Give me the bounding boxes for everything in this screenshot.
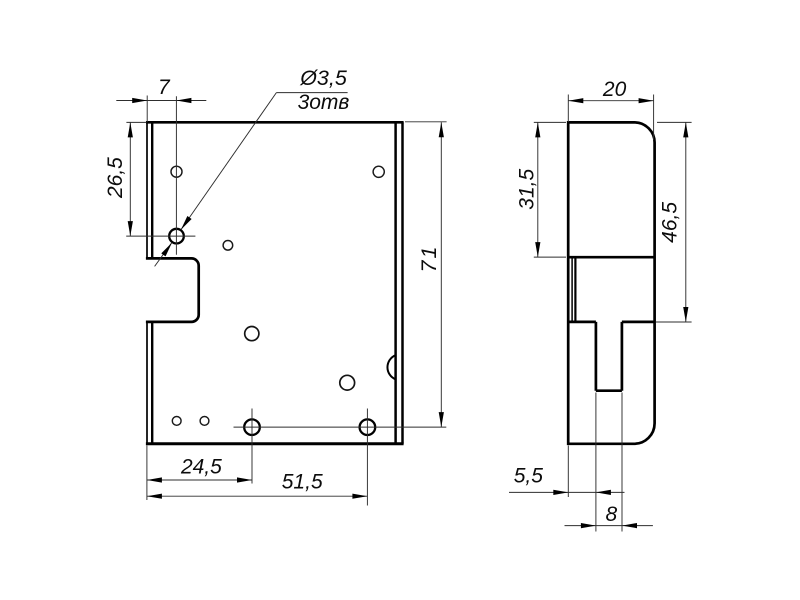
dimension 71 extension line top [405, 121, 447, 123]
hole top-left [171, 166, 182, 177]
front view: left outer edge (upper part) [146, 122, 148, 258]
dimension 8 extension left (slot left wall extended) [595, 393, 597, 532]
dimension 31,5 arrow bottom [535, 242, 540, 257]
front view: left bend line (lower part) [151, 322, 153, 444]
dimension 20 arrow left [568, 98, 583, 103]
dimension 24,5 text [180, 455, 222, 478]
hole middle center [245, 327, 259, 341]
dimension 46,5 extension top [657, 121, 692, 123]
svg-text:26,5: 26,5 [104, 157, 127, 199]
dimensioned hole I 3.5 bottom left [244, 419, 260, 435]
hole top-right [373, 166, 384, 177]
side view: slot left wall [595, 322, 598, 391]
dimension 46,5 text [658, 202, 681, 243]
dimension 8 extension right (slot right wall extended) [621, 393, 623, 532]
side view: middle shelf right segment [622, 321, 654, 324]
dimension 24,5 arrow right [237, 477, 252, 482]
front view: left outer edge (lower part) [146, 322, 148, 444]
side view: step line [567, 256, 654, 259]
dimension 8 arrow right [622, 523, 637, 528]
dimension 24,5 and 51,5 common extension line [146, 446, 148, 501]
center line vertical of hole I [251, 409, 253, 484]
side view: outline [568, 122, 654, 443]
hole small middle [223, 241, 233, 251]
dimension 5,5 line [509, 491, 625, 493]
dimension 31,5 arrow top [535, 122, 540, 137]
hole middle lower [340, 375, 355, 390]
dimension 5,5 arrow left [553, 490, 568, 495]
dimension 26,5 arrow top [128, 122, 133, 137]
dimension 51,5 line [147, 495, 368, 497]
dimension 7 arrow right [176, 98, 191, 103]
front view: right inner edge line [394, 122, 397, 443]
svg-text:51,5: 51,5 [282, 470, 323, 493]
dimension 46,5 arrow bottom [683, 307, 688, 322]
front view: notch cutout with rounded corners [146, 258, 199, 322]
dimension 51,5 text [282, 470, 323, 493]
dimension 24,5 arrow left [147, 477, 162, 482]
dimension 8 text [605, 503, 617, 526]
side view: inner thin line [571, 257, 573, 322]
side view: slot right wall [621, 322, 624, 391]
dimension 7 line [116, 100, 206, 102]
dimension 26,5 line [129, 122, 131, 236]
dimension 71 arrow bottom [439, 412, 444, 427]
dimension 20 text [602, 78, 627, 101]
dimension 26,5 extension line top [126, 121, 146, 123]
dimension 20 extension right [653, 95, 655, 141]
leader arrow lower [161, 241, 174, 256]
leader line lower tail [155, 243, 172, 267]
label diameter 3,5 [299, 66, 348, 90]
dimension 26,5 text [104, 157, 127, 199]
side view: middle shelf left segment [567, 321, 596, 324]
dimension 20 line [568, 100, 653, 102]
dimension 8 arrow left [581, 523, 596, 528]
dimension 71 arrow top [439, 122, 444, 137]
svg-text:20: 20 [602, 78, 627, 101]
svg-text:24,5: 24,5 [180, 455, 222, 478]
dimension 20 arrow right [639, 98, 654, 103]
hole bottom small 1 [172, 417, 181, 426]
svg-text:71: 71 [417, 245, 441, 273]
dimension 5,5 extension left [567, 446, 569, 498]
center line vertical of hole J [366, 409, 368, 506]
svg-text:Ø3,5: Ø3,5 [299, 66, 348, 90]
dimension 31,5 extension top [534, 121, 566, 123]
svg-text:3отв: 3отв [298, 91, 350, 114]
dimensioned hole D 3.5 upper [169, 229, 184, 244]
dimension 26,5 arrow bottom [128, 221, 133, 236]
label 3otv [298, 91, 350, 114]
svg-text:5,5: 5,5 [514, 465, 544, 488]
dimension 7 arrow left [132, 98, 147, 103]
front view: bottom edge [146, 442, 404, 445]
front view: right outer edge line [401, 122, 404, 443]
side view: slot bottom [596, 389, 622, 392]
dimensioned hole J 3.5 bottom right [360, 419, 376, 435]
dimension 5,5 arrow right [596, 490, 611, 495]
leader shelf line [276, 92, 347, 94]
center line vertical of hole D [175, 96, 177, 255]
dimension 31,5 text [515, 169, 538, 210]
front view: left bend line (upper part) [151, 122, 153, 258]
dimension 46,5 arrow top [683, 122, 688, 137]
dimension 31,5 line [537, 122, 539, 257]
dimension 51,5 arrow right [352, 494, 367, 499]
svg-text:46,5: 46,5 [658, 202, 681, 243]
center line horizontal of hole D [126, 235, 195, 237]
svg-text:8: 8 [605, 503, 617, 526]
dimension 20 extension left [567, 95, 569, 123]
center line horizontal through holes I and J [234, 426, 447, 428]
dimension 46,5 extension bottom [656, 321, 692, 323]
hole bottom small 2 [200, 417, 209, 426]
side view: inner thick line [574, 257, 576, 322]
svg-text:31,5: 31,5 [515, 169, 538, 210]
svg-text:7: 7 [158, 76, 171, 99]
leader arrow upper [179, 216, 192, 231]
front view: top edge [146, 121, 404, 124]
dimension 71 line [440, 122, 442, 427]
dimension 7 extension line left [146, 96, 148, 123]
leader line upper segment [181, 93, 276, 230]
dimension 71 text [417, 245, 441, 273]
dimension 8 line [565, 525, 653, 527]
dimension 31,5 extension bottom [534, 256, 566, 258]
dimension 5,5 text [514, 465, 544, 488]
dimension 7 text [158, 76, 171, 99]
dimension 24,5 line [147, 479, 252, 481]
dimension 51,5 arrow left [147, 494, 162, 499]
dimension 46,5 line [685, 122, 687, 322]
front view: side hole arc on right edge [387, 355, 395, 379]
